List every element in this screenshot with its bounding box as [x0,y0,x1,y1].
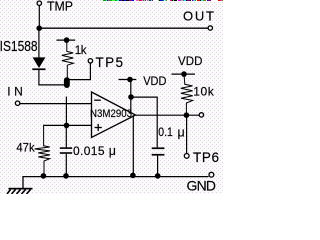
node plus input dot [64,123,70,129]
diode D1 IS1588 [0,38,46,70]
wire node down to +input node (with gap) [65,97,67,126]
resistor R1 1k [62,42,87,79]
node 0.015u bottom rail dot [63,173,69,179]
wire bottom ground rail [23,177,209,189]
svg-text:IS1588: IS1588 [0,38,38,55]
terminal TMP [37,0,73,13]
wire op-amp output [136,114,200,116]
wire bypass to 0.1u cap [131,97,157,147]
power symbol VDD1 bar [119,76,167,88]
terminal OUT [183,8,214,30]
node TMP junction [36,25,42,31]
wire IN to op-amp minus input [20,103,92,105]
wire diode cathode down and right to node [39,70,67,85]
svg-text:μ: μ [178,125,185,139]
resistor R1 1k top bar [57,39,76,41]
svg-text:μ: μ [109,144,116,158]
node op-amp ground rail dot [130,173,136,179]
svg-text:1k: 1k [75,45,87,57]
node output dot [184,112,190,118]
node 1k top dot [64,37,70,43]
svg-text:VDD: VDD [143,76,166,88]
wire node to TP5 [67,63,90,79]
wire 47k top / plus input horizontal [43,124,91,126]
resistor R2 47k [16,125,50,176]
wire op-amp ground pin [132,115,134,176]
capacitor C1 0.015u [60,125,116,176]
svg-text:0.015: 0.015 [73,144,105,158]
node bypass cap tap dot [128,94,134,100]
svg-text:IN: IN [7,84,23,98]
terminal TP6 [184,150,219,165]
svg-text:OUT: OUT [183,8,214,23]
terminal GND [187,172,217,193]
wire output down to TP6 [186,115,188,153]
op-amp U1 N3M2903 [90,92,136,138]
node diode/1k/TP5 junction capsule [64,77,70,88]
svg-text:TP6: TP6 [193,150,219,165]
scanline noise artifact [103,0,223,1]
terminal TP5 [88,55,123,70]
resistor R3 10k [181,74,215,115]
ground earth symbol [7,188,33,194]
svg-text:VDD: VDD [178,56,202,68]
power symbol VDD2 [172,56,203,77]
svg-text:N3M2903: N3M2903 [90,108,132,120]
node 0.1u bottom rail dot [155,173,161,179]
wire op-amp power pin [130,80,132,113]
terminal output stub circle [199,113,203,117]
wire TMP terminal to junction [38,6,40,29]
svg-text:TMP: TMP [47,0,73,13]
svg-text:10k: 10k [193,85,214,99]
capacitor C2 0.1u [152,125,185,176]
svg-text:0.1: 0.1 [158,127,173,139]
wire TMP junction down to diode anode [38,28,40,58]
svg-text:GND: GND [187,178,217,194]
node 47k bottom rail dot [41,173,47,179]
svg-text:TP5: TP5 [96,55,124,70]
terminal IN [7,84,23,105]
wire top rail TMP to OUT [39,27,208,29]
svg-text:47k: 47k [16,140,35,154]
